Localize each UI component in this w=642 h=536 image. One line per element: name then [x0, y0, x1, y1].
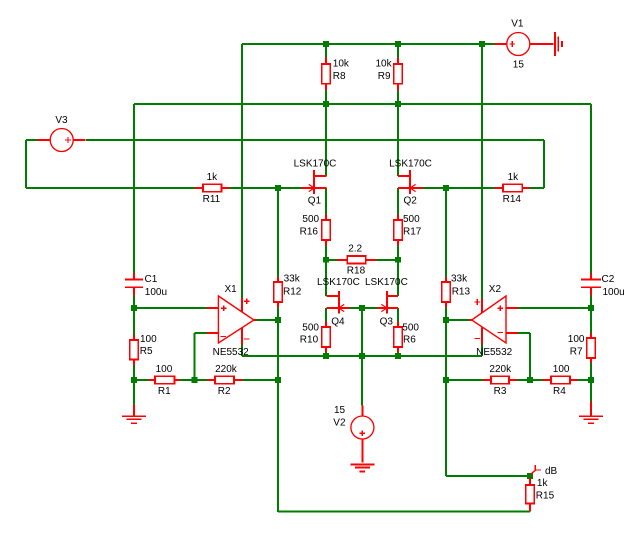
- svg-text:LSK170C: LSK170C: [317, 277, 360, 288]
- svg-text:C1: C1: [145, 274, 158, 285]
- svg-text:NE5532: NE5532: [213, 347, 250, 358]
- svg-text:LSK170C: LSK170C: [389, 159, 432, 170]
- svg-text:Q1: Q1: [308, 196, 322, 207]
- svg-text:R13: R13: [452, 287, 471, 298]
- svg-text:R9: R9: [378, 71, 391, 82]
- svg-text:500: 500: [403, 214, 420, 225]
- svg-text:R14: R14: [503, 194, 522, 205]
- svg-text:R12: R12: [283, 287, 302, 298]
- svg-text:R6: R6: [403, 334, 416, 345]
- svg-text:R3: R3: [494, 386, 507, 397]
- svg-text:R5: R5: [140, 346, 153, 357]
- svg-text:dB: dB: [545, 466, 558, 477]
- svg-text:X2: X2: [489, 284, 502, 295]
- svg-text:R10: R10: [300, 334, 319, 345]
- svg-text:100: 100: [140, 334, 157, 345]
- svg-text:R7: R7: [570, 346, 583, 357]
- svg-text:NE5532: NE5532: [476, 347, 513, 358]
- svg-text:33k: 33k: [451, 273, 468, 284]
- svg-text:Q2: Q2: [404, 196, 418, 207]
- svg-text:R4: R4: [553, 386, 566, 397]
- svg-text:15: 15: [513, 59, 525, 70]
- svg-text:R18: R18: [347, 266, 366, 277]
- svg-text:X1: X1: [225, 284, 238, 295]
- svg-text:LSK170C: LSK170C: [294, 159, 337, 170]
- svg-text:LSK170C: LSK170C: [365, 277, 408, 288]
- svg-text:2.2: 2.2: [348, 244, 362, 255]
- svg-text:1k: 1k: [508, 172, 520, 183]
- svg-text:R8: R8: [333, 71, 346, 82]
- svg-text:220k: 220k: [215, 364, 238, 375]
- svg-text:500: 500: [302, 323, 319, 334]
- svg-text:15: 15: [334, 405, 346, 416]
- svg-text:33k: 33k: [284, 273, 301, 284]
- svg-text:100: 100: [568, 334, 585, 345]
- svg-text:10k: 10k: [333, 58, 350, 69]
- svg-text:Q4: Q4: [331, 316, 345, 327]
- svg-text:100u: 100u: [603, 287, 625, 298]
- svg-text:10k: 10k: [376, 58, 393, 69]
- svg-text:R11: R11: [203, 194, 221, 205]
- svg-text:100: 100: [156, 364, 173, 375]
- svg-text:500: 500: [402, 323, 419, 334]
- svg-text:R17: R17: [403, 227, 422, 238]
- svg-text:220k: 220k: [489, 364, 512, 375]
- svg-text:R1: R1: [158, 386, 171, 397]
- svg-text:V2: V2: [333, 418, 346, 429]
- svg-text:V1: V1: [511, 19, 524, 30]
- svg-text:Q3: Q3: [380, 316, 394, 327]
- svg-text:500: 500: [302, 214, 319, 225]
- svg-text:100: 100: [553, 364, 570, 375]
- svg-text:R16: R16: [300, 227, 319, 238]
- svg-text:100u: 100u: [145, 287, 167, 298]
- svg-text:C2: C2: [602, 274, 615, 285]
- svg-text:1k: 1k: [207, 172, 219, 183]
- svg-text:V3: V3: [55, 115, 68, 126]
- svg-text:R15: R15: [536, 491, 555, 502]
- svg-text:1k: 1k: [537, 478, 549, 489]
- svg-text:R2: R2: [218, 386, 231, 397]
